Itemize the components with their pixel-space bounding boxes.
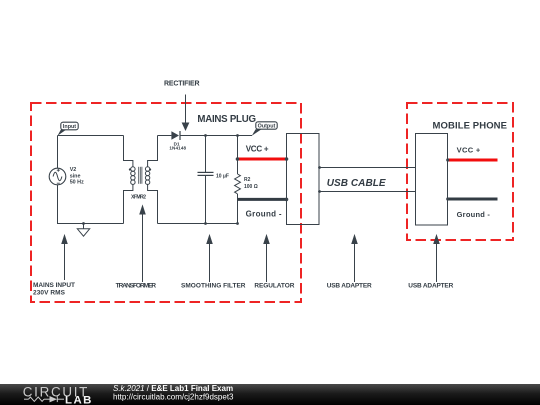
- svg-text:SMOOTHING FILTER: SMOOTHING FILTER: [181, 283, 246, 290]
- svg-text:REGULATOR: REGULATOR: [254, 283, 294, 290]
- svg-text:sine: sine: [70, 173, 81, 179]
- svg-text:MOBILE PHONE: MOBILE PHONE: [433, 121, 508, 132]
- svg-text:VCC +: VCC +: [457, 145, 481, 154]
- svg-text:MAINS PLUG: MAINS PLUG: [197, 114, 256, 125]
- svg-text:RECTIFIER: RECTIFIER: [164, 81, 200, 88]
- svg-text:50 Hz: 50 Hz: [70, 180, 84, 186]
- svg-text:http://circuitlab.com/cj2hzf9d: http://circuitlab.com/cj2hzf9dspet3: [113, 392, 234, 401]
- svg-text:USB ADAPTER: USB ADAPTER: [408, 283, 453, 290]
- svg-text:Input: Input: [63, 124, 76, 130]
- svg-text:XFMR2: XFMR2: [131, 194, 146, 200]
- svg-text:TRANSFORMER: TRANSFORMER: [116, 283, 157, 290]
- svg-text:R2: R2: [244, 177, 251, 183]
- svg-text:100 Ω: 100 Ω: [244, 184, 258, 190]
- svg-text:1N4148: 1N4148: [169, 146, 186, 151]
- svg-text:V2: V2: [70, 167, 77, 173]
- svg-text:Output: Output: [258, 124, 276, 130]
- svg-text:MAINS INPUT: MAINS INPUT: [33, 282, 75, 289]
- svg-text:USB CABLE: USB CABLE: [327, 178, 386, 189]
- svg-text:10 µF: 10 µF: [216, 173, 229, 179]
- svg-text:LAB: LAB: [65, 394, 93, 405]
- svg-text:USB ADAPTER: USB ADAPTER: [327, 283, 372, 290]
- svg-text:VCC +: VCC +: [246, 144, 269, 153]
- svg-text:230V RMS: 230V RMS: [33, 290, 66, 297]
- svg-text:Ground -: Ground -: [457, 210, 491, 219]
- svg-text:Ground -: Ground -: [246, 210, 282, 219]
